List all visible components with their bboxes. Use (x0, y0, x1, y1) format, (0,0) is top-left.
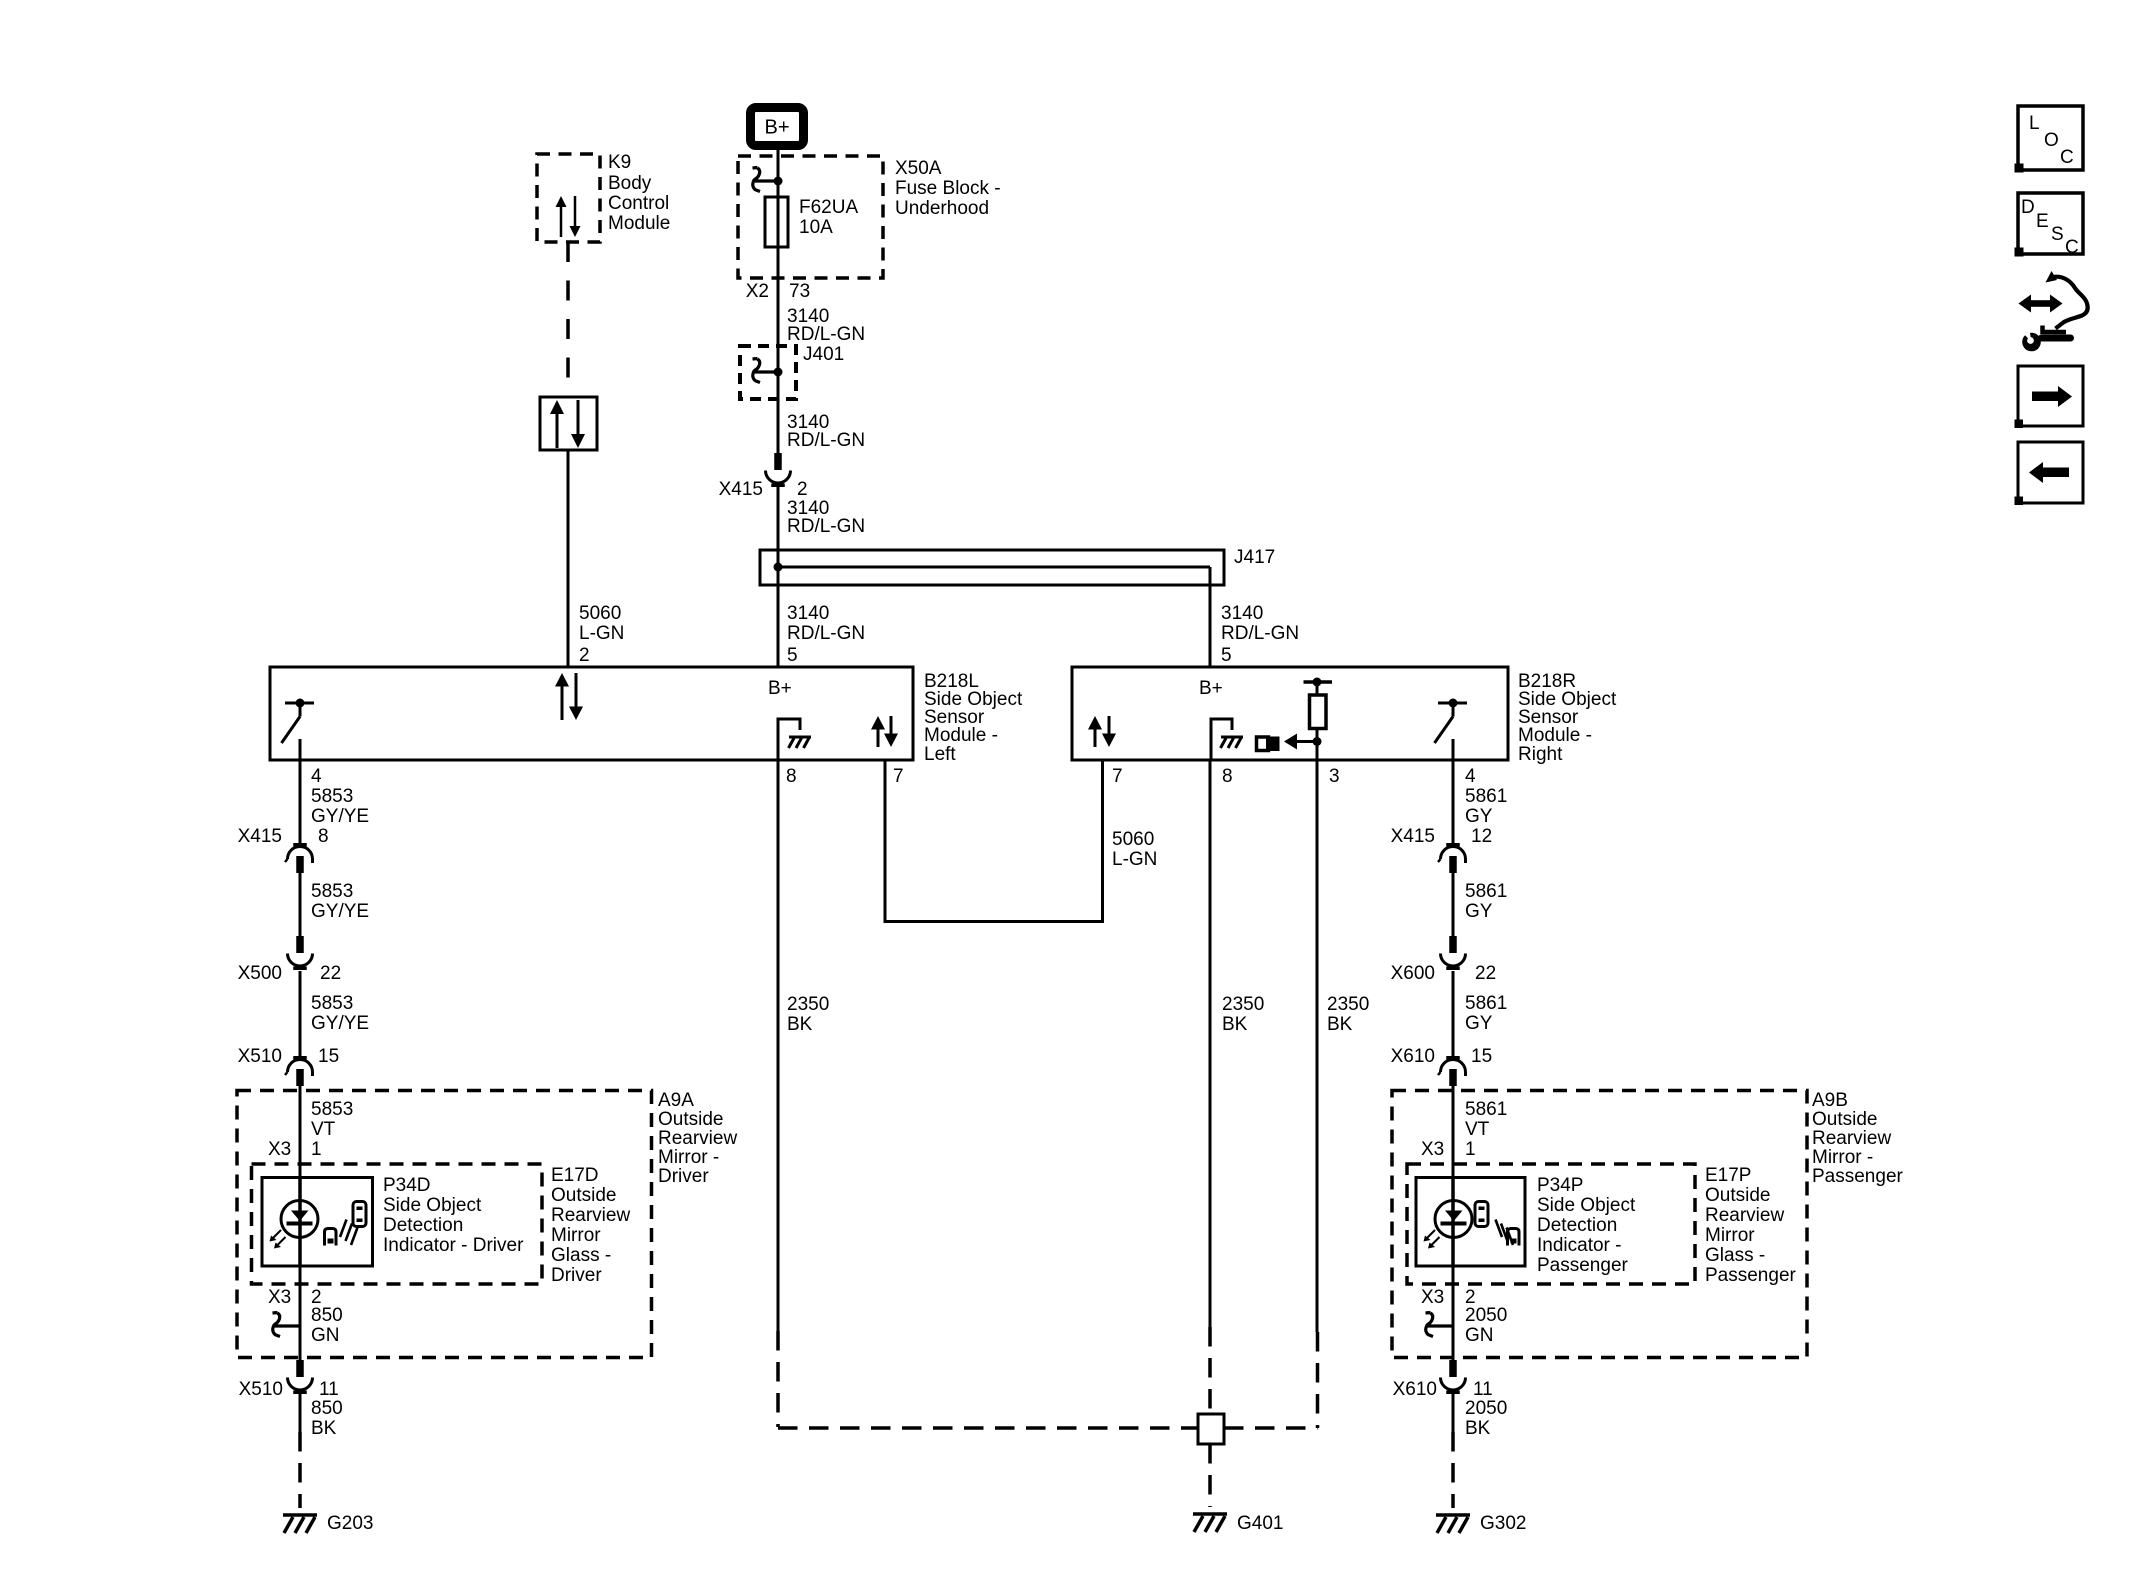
svg-text:RD/L-GN: RD/L-GN (787, 623, 865, 644)
ground splice box (1198, 1414, 1224, 1444)
svg-text:Detection: Detection (1537, 1215, 1617, 1236)
dashed ground bus run (778, 1426, 1318, 1430)
svg-text:2: 2 (579, 645, 590, 666)
svg-text:L-GN: L-GN (1112, 849, 1157, 870)
wire 5853 GY/YE pin4 to X415 (300, 760, 369, 843)
svg-text:L-GN: L-GN (579, 623, 624, 644)
svg-text:Mirror -: Mirror - (1812, 1147, 1873, 1168)
indicator P34D box (262, 1175, 524, 1266)
clip terminal X3-2 left (273, 1313, 300, 1337)
arrows B218R pin 7 (1088, 716, 1116, 747)
internal switch B218L pin 4 (282, 699, 315, 761)
in-line connector X510 pin 15 (238, 1046, 340, 1086)
wire 5853 VT into A9A (300, 1086, 353, 1178)
svg-text:RD/L-GN: RD/L-GN (787, 430, 865, 451)
svg-text:GN: GN (311, 1325, 340, 1346)
svg-text:F62UA: F62UA (799, 197, 858, 218)
svg-text:5861: 5861 (1465, 993, 1507, 1014)
svg-text:BK: BK (1222, 1014, 1248, 1035)
clip terminal X3-2 right (1426, 1313, 1453, 1337)
clip terminal J401 (753, 359, 779, 383)
mirror housing A9A box (237, 1090, 737, 1358)
svg-text:Passenger: Passenger (1705, 1265, 1797, 1286)
svg-text:K9: K9 (608, 152, 631, 173)
svg-text:E17P: E17P (1705, 1165, 1751, 1186)
arrows B218L pin 2 (555, 673, 583, 720)
car icons P34P (1475, 1202, 1519, 1246)
svg-text:2350: 2350 (787, 994, 829, 1015)
wire 5861 GY X415 to X600 (1453, 873, 1507, 936)
svg-text:Outside: Outside (658, 1109, 723, 1130)
svg-text:5853: 5853 (311, 881, 353, 902)
svg-text:GY/YE: GY/YE (311, 901, 369, 922)
svg-text:2350: 2350 (1222, 994, 1264, 1015)
wire 3140 RD/L-GN to B218L pin 5 (778, 585, 865, 667)
svg-text:15: 15 (1471, 1046, 1492, 1067)
svg-text:G302: G302 (1480, 1513, 1526, 1534)
arrows in inline connector (550, 400, 585, 448)
connector label X3 pin 1 left (268, 1139, 322, 1160)
fuse F62UA 10A (765, 181, 858, 278)
svg-text:3140: 3140 (1221, 603, 1263, 624)
module B218L Side Object Sensor Module - Left (270, 667, 1023, 765)
svg-text:B+: B+ (1199, 678, 1223, 699)
svg-text:BK: BK (1327, 1014, 1353, 1035)
wire 3140 RD/L-GN to B218R pin 5 (1210, 585, 1299, 667)
svg-text:J401: J401 (803, 344, 844, 365)
svg-text:8: 8 (318, 826, 329, 847)
svg-text:5: 5 (1221, 645, 1232, 666)
pin labels below B218L (311, 766, 904, 787)
svg-text:X415: X415 (719, 479, 763, 500)
svg-text:X50A: X50A (895, 158, 942, 179)
svg-text:S: S (2051, 224, 2064, 245)
ground G401 (1193, 1513, 1283, 1534)
internal switch B218R pin 4 (1435, 699, 1468, 761)
svg-text:2350: 2350 (1327, 994, 1369, 1015)
wire 2350 BK B218R pin 3 (1317, 760, 1369, 1428)
svg-text:Underhood: Underhood (895, 198, 989, 219)
pin labels below B218R (1112, 766, 1476, 787)
svg-text:5060: 5060 (1112, 829, 1154, 850)
LED symbol P34D (270, 1201, 319, 1249)
svg-text:J417: J417 (1234, 547, 1275, 568)
svg-text:GY: GY (1465, 806, 1493, 827)
svg-text:Fuse Block -: Fuse Block - (895, 178, 1001, 199)
dashed wire K9 to inline connector (566, 242, 570, 397)
svg-text:1: 1 (1465, 1139, 1476, 1160)
body control module K9 (537, 152, 670, 242)
splice J417 (760, 547, 1275, 585)
ground G203 (283, 1513, 373, 1534)
splice J401 box (740, 344, 844, 399)
svg-text:O: O (2044, 130, 2059, 151)
wire through P34P (1451, 1178, 1455, 1267)
wire 2350 BK B218R pin 8 (1210, 760, 1264, 1414)
svg-text:BK: BK (1465, 1418, 1491, 1439)
svg-text:5853: 5853 (311, 993, 353, 1014)
svg-text:BK: BK (311, 1418, 337, 1439)
svg-text:Module -: Module - (924, 725, 998, 746)
LED detector B218R pin 3 (1257, 734, 1322, 761)
svg-text:Rearview: Rearview (1812, 1128, 1891, 1149)
svg-text:E17D: E17D (551, 1165, 599, 1186)
wire 850 GN out of P34D (268, 1266, 343, 1360)
wire 2050 GN out of P34P (1421, 1266, 1507, 1360)
svg-text:850: 850 (311, 1305, 343, 1326)
svg-text:Mirror -: Mirror - (658, 1147, 719, 1168)
svg-text:Module: Module (608, 213, 670, 234)
svg-text:Passenger: Passenger (1812, 1166, 1904, 1187)
svg-text:E: E (2036, 211, 2049, 232)
in-line connector X610 pin 15 (1391, 1046, 1493, 1086)
svg-text:73: 73 (789, 281, 810, 302)
connector label X2 pin 73 (746, 281, 810, 302)
junction dot J417 (774, 563, 783, 572)
dashed wire to G401 (1208, 1444, 1212, 1507)
B+ label B218R (1199, 678, 1223, 699)
svg-text:A9B: A9B (1812, 1090, 1848, 1111)
svg-text:Body: Body (608, 173, 652, 194)
junction dot J401 (774, 368, 783, 377)
svg-text:X2: X2 (746, 281, 769, 302)
svg-text:P34P: P34P (1537, 1175, 1583, 1196)
svg-text:Glass -: Glass - (551, 1245, 611, 1266)
in-line connector X500 pin 22 (238, 936, 342, 984)
nav box DESC (2015, 193, 2084, 258)
svg-text:5853: 5853 (311, 1099, 353, 1120)
svg-text:RD/L-GN: RD/L-GN (787, 516, 865, 537)
wire 5853 GY/YE X415 to X500 (300, 873, 369, 936)
svg-text:4: 4 (1465, 766, 1476, 787)
svg-text:Detection: Detection (383, 1215, 463, 1236)
svg-text:8: 8 (1222, 766, 1233, 787)
svg-text:X415: X415 (1391, 826, 1435, 847)
svg-text:Outside: Outside (1705, 1185, 1770, 1206)
in-line connector X415 pin 12 (1391, 826, 1493, 873)
junction dot X50A (774, 177, 783, 186)
clip terminal X50A (753, 168, 779, 192)
svg-text:BK: BK (787, 1014, 813, 1035)
svg-text:Rearview: Rearview (1705, 1205, 1784, 1226)
internal ground B218R pin 8 (1211, 719, 1243, 760)
ground G302 (1436, 1513, 1526, 1534)
svg-text:Rearview: Rearview (658, 1128, 737, 1149)
in-line connector X415 pin 2 (719, 453, 808, 500)
svg-text:GY: GY (1465, 1013, 1493, 1034)
svg-text:A9A: A9A (658, 1090, 694, 1111)
svg-text:15: 15 (318, 1046, 339, 1067)
in-line connector X510 pin 11 (239, 1360, 339, 1400)
svg-text:10A: 10A (799, 217, 833, 238)
svg-text:VT: VT (311, 1119, 336, 1140)
svg-text:5861: 5861 (1465, 786, 1507, 807)
svg-text:2: 2 (797, 479, 808, 500)
svg-text:X3: X3 (1421, 1139, 1444, 1160)
wire 2050 BK to ground (1453, 1394, 1507, 1509)
svg-text:5861: 5861 (1465, 1099, 1507, 1120)
svg-text:X510: X510 (239, 1379, 283, 1400)
svg-text:11: 11 (319, 1379, 339, 1400)
svg-text:12: 12 (1471, 826, 1492, 847)
svg-text:GN: GN (1465, 1325, 1494, 1346)
svg-text:Side Object: Side Object (1537, 1195, 1636, 1216)
svg-text:Left: Left (924, 744, 956, 765)
svg-text:22: 22 (320, 963, 341, 984)
svg-text:C: C (2060, 147, 2074, 168)
svg-text:Driver: Driver (658, 1166, 709, 1187)
svg-text:Indicator -: Indicator - (1537, 1235, 1621, 1256)
internal ground B218L pin 8 (778, 719, 811, 760)
wire 5060 L-GN to B218L pin 2 (568, 450, 624, 667)
connector label X3 pin 1 right (1421, 1139, 1476, 1160)
mirror housing A9B box (1392, 1090, 1904, 1358)
wire 5861 GY X600 to X610 (1453, 971, 1507, 1056)
nav box previous arrow (2015, 442, 2084, 505)
nav box LOC (2015, 106, 2084, 173)
wire through P34D (298, 1178, 302, 1267)
mirror glass E17D box (252, 1164, 631, 1286)
inline harness connector box (540, 397, 597, 450)
mirror glass E17P box (1407, 1164, 1797, 1286)
svg-text:D: D (2021, 197, 2035, 218)
wire 5853 GY/YE X500 to X510 (300, 971, 369, 1056)
svg-text:2050: 2050 (1465, 1305, 1507, 1326)
svg-text:5861: 5861 (1465, 881, 1507, 902)
svg-text:Outside: Outside (551, 1185, 616, 1206)
svg-text:X415: X415 (238, 826, 282, 847)
svg-text:VT: VT (1465, 1119, 1490, 1140)
svg-text:Side Object: Side Object (383, 1195, 482, 1216)
svg-text:X3: X3 (1421, 1287, 1444, 1308)
svg-text:2050: 2050 (1465, 1398, 1507, 1419)
svg-text:1: 1 (311, 1139, 322, 1160)
repair info icon (2019, 271, 2088, 351)
svg-text:22: 22 (1475, 963, 1496, 984)
svg-text:GY/YE: GY/YE (311, 1013, 369, 1034)
power symbol B+ (751, 108, 804, 146)
in-line connector X600 pin 22 (1391, 936, 1497, 984)
wire 5060 L-GN pin7 loop (885, 760, 1157, 922)
wire 2350 BK B218L pin 8 (778, 760, 829, 1427)
wire 3140 RD/L-GN X415 to J417 (778, 487, 865, 550)
svg-text:X610: X610 (1393, 1379, 1437, 1400)
svg-text:Passenger: Passenger (1537, 1255, 1629, 1276)
arrows B218L pin 7 (871, 716, 898, 747)
svg-text:7: 7 (893, 766, 904, 787)
svg-text:G203: G203 (327, 1513, 373, 1534)
svg-text:7: 7 (1112, 766, 1123, 787)
svg-text:Rearview: Rearview (551, 1205, 630, 1226)
svg-text:5060: 5060 (579, 603, 621, 624)
svg-text:Outside: Outside (1812, 1109, 1877, 1130)
wire B+ feed to fuse block (777, 148, 780, 199)
svg-text:X610: X610 (1391, 1046, 1435, 1067)
svg-text:Indicator - Driver: Indicator - Driver (383, 1235, 524, 1256)
svg-text:X510: X510 (238, 1046, 282, 1067)
svg-text:4: 4 (311, 766, 322, 787)
svg-text:Module -: Module - (1518, 725, 1592, 746)
svg-text:5: 5 (787, 645, 798, 666)
svg-text:G401: G401 (1237, 1513, 1283, 1534)
svg-text:Mirror: Mirror (1705, 1225, 1755, 1246)
module B218R Side Object Sensor Module - Right (1072, 667, 1617, 765)
in-line connector X610 pin 11 (1393, 1360, 1493, 1400)
svg-text:Mirror: Mirror (551, 1225, 601, 1246)
svg-text:B+: B+ (764, 117, 789, 139)
svg-text:850: 850 (311, 1398, 343, 1419)
indicator P34P box (1416, 1175, 1636, 1276)
B+ label B218L (768, 678, 792, 699)
svg-text:GY: GY (1465, 901, 1493, 922)
car icons P34D (325, 1202, 367, 1246)
wire 5861 VT into A9B (1453, 1086, 1507, 1178)
resistor B218R (1304, 678, 1333, 742)
wire 3140 RD/L-GN fuse to J401 (778, 278, 865, 346)
wire 850 BK to ground (300, 1394, 343, 1509)
in-line connector X415 pin 8 (238, 826, 329, 873)
svg-text:B+: B+ (768, 678, 792, 699)
svg-text:Control: Control (608, 193, 669, 214)
svg-text:Right: Right (1518, 744, 1563, 765)
nav box next arrow (2015, 366, 2084, 428)
svg-text:8: 8 (786, 766, 797, 787)
svg-text:Glass -: Glass - (1705, 1245, 1765, 1266)
svg-text:X3: X3 (268, 1139, 291, 1160)
svg-text:RD/L-GN: RD/L-GN (1221, 623, 1299, 644)
svg-text:3140: 3140 (787, 603, 829, 624)
svg-text:3: 3 (1329, 766, 1340, 787)
wire 5861 GY pin4 to X415 (1453, 760, 1507, 843)
svg-text:GY/YE: GY/YE (311, 806, 369, 827)
svg-text:X600: X600 (1391, 963, 1435, 984)
svg-text:11: 11 (1473, 1379, 1493, 1400)
svg-text:5853: 5853 (311, 786, 353, 807)
svg-text:C: C (2065, 237, 2079, 258)
svg-text:L: L (2029, 113, 2040, 134)
svg-text:X3: X3 (268, 1287, 291, 1308)
wire 3140 RD/L-GN J401 to X415 (778, 399, 865, 453)
LED symbol P34P (1424, 1201, 1473, 1249)
svg-text:P34D: P34D (383, 1175, 431, 1196)
svg-text:X500: X500 (238, 963, 282, 984)
svg-text:Driver: Driver (551, 1265, 602, 1286)
svg-text:RD/L-GN: RD/L-GN (787, 324, 865, 345)
arrows in K9 (556, 196, 581, 237)
fuse block X50A box (738, 156, 1001, 278)
